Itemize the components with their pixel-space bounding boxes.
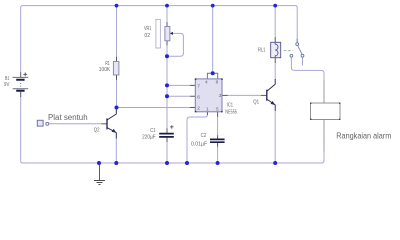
svg-text:02: 02: [144, 33, 150, 39]
svg-text:Plat sentuh: Plat sentuh: [48, 113, 88, 122]
svg-text:RL1: RL1: [258, 48, 266, 54]
svg-text:C2: C2: [201, 133, 207, 139]
svg-text:0.01µF: 0.01µF: [191, 141, 207, 147]
svg-text:NE555: NE555: [225, 110, 237, 116]
svg-text:VR1: VR1: [144, 26, 151, 32]
svg-text:IC1: IC1: [227, 102, 233, 108]
svg-text:220µF: 220µF: [142, 135, 156, 141]
svg-text:9V: 9V: [4, 82, 10, 88]
svg-text:Rangkaian alarm: Rangkaian alarm: [336, 131, 391, 140]
svg-text:Q1: Q1: [253, 99, 259, 105]
svg-text:C1: C1: [150, 128, 156, 134]
svg-text:B1: B1: [5, 76, 10, 82]
svg-text:Q2: Q2: [94, 127, 100, 133]
svg-text:100K: 100K: [99, 67, 111, 73]
